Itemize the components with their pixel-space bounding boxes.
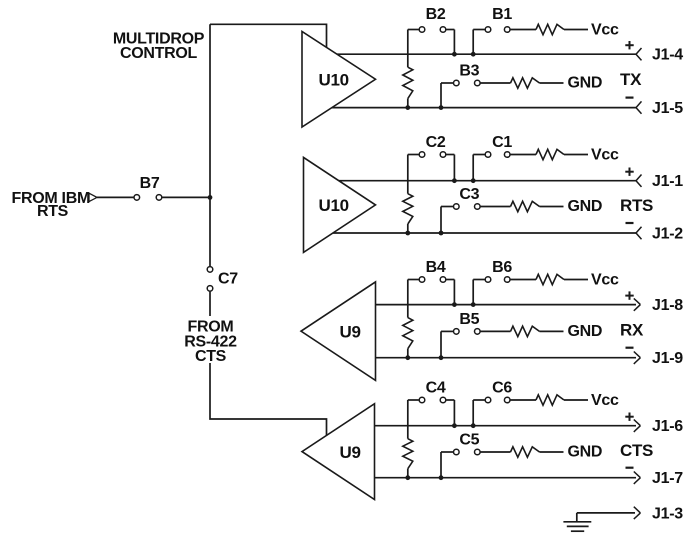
svg-text:B4: B4 <box>426 259 446 276</box>
svg-text:B5: B5 <box>459 311 479 328</box>
svg-text:C2: C2 <box>426 134 446 151</box>
svg-text:J1-3: J1-3 <box>652 505 683 522</box>
svg-text:B7: B7 <box>140 175 160 192</box>
svg-text:J1-7: J1-7 <box>652 470 683 487</box>
svg-text:RTS: RTS <box>37 203 69 220</box>
svg-text:J1-9: J1-9 <box>652 350 683 367</box>
svg-text:B1: B1 <box>492 6 512 23</box>
svg-text:GND: GND <box>568 323 603 340</box>
svg-text:Vcc: Vcc <box>591 272 619 289</box>
svg-text:GND: GND <box>568 198 603 215</box>
svg-text:J1-4: J1-4 <box>652 47 683 64</box>
svg-text:Vcc: Vcc <box>591 392 619 409</box>
svg-text:J1-6: J1-6 <box>652 418 683 435</box>
svg-text:J1-2: J1-2 <box>652 226 683 243</box>
svg-text:CTS: CTS <box>195 348 227 365</box>
svg-text:TX: TX <box>620 70 642 89</box>
svg-text:C7: C7 <box>218 271 238 288</box>
svg-text:J1-5: J1-5 <box>652 100 683 117</box>
svg-text:U10: U10 <box>319 71 349 90</box>
svg-text:C5: C5 <box>459 432 479 449</box>
svg-text:GND: GND <box>568 444 603 461</box>
svg-text:B6: B6 <box>492 259 512 276</box>
svg-text:CONTROL: CONTROL <box>120 45 198 62</box>
svg-text:C1: C1 <box>492 134 512 151</box>
svg-text:U10: U10 <box>319 196 349 215</box>
svg-text:J1-8: J1-8 <box>652 297 683 314</box>
svg-text:Vcc: Vcc <box>591 147 619 164</box>
svg-text:U9: U9 <box>340 443 361 462</box>
svg-text:Vcc: Vcc <box>591 22 619 39</box>
svg-text:C6: C6 <box>492 379 512 396</box>
svg-text:B2: B2 <box>426 6 446 23</box>
svg-text:CTS: CTS <box>620 441 653 460</box>
svg-text:GND: GND <box>568 75 603 92</box>
svg-text:J1-1: J1-1 <box>652 173 683 190</box>
svg-text:RX: RX <box>620 320 644 339</box>
svg-text:RTS: RTS <box>620 196 653 215</box>
svg-text:C4: C4 <box>426 379 446 396</box>
svg-text:U9: U9 <box>340 323 361 342</box>
svg-text:C3: C3 <box>459 186 479 203</box>
svg-text:B3: B3 <box>459 63 479 80</box>
